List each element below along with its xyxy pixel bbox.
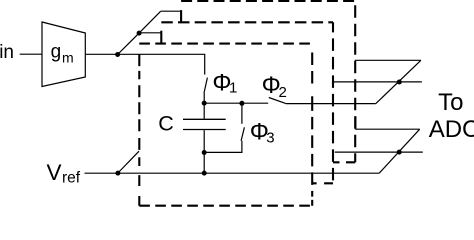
svg-text:C: C xyxy=(158,111,174,135)
label Vref xyxy=(47,160,81,187)
label gm xyxy=(51,42,74,66)
node output mux top junction xyxy=(397,80,402,85)
wire stage 2 reference output xyxy=(335,151,423,153)
node output mux bottom junction xyxy=(397,150,402,155)
node stage 3 input terminal xyxy=(180,10,182,23)
wire Vref fan diagonal xyxy=(118,151,139,173)
sample-and-hold stage 2 (middle dashed box) xyxy=(161,22,333,183)
label phi1 xyxy=(212,70,237,97)
wire top plate stem xyxy=(203,103,205,119)
wire top plate to switch phi2 xyxy=(204,102,268,104)
svg-text:To: To xyxy=(438,89,463,116)
wire phi2 output xyxy=(286,103,376,105)
wire to stage 2 input xyxy=(139,32,161,34)
label To ADC xyxy=(429,89,474,143)
wire input fan diagonal xyxy=(118,11,161,54)
node bottom plate junction xyxy=(202,150,207,155)
svg-text:ADC: ADC xyxy=(429,116,474,143)
svg-text:g: g xyxy=(51,42,62,63)
wire stage 3 reference output xyxy=(356,116,420,129)
wire Vref rail xyxy=(85,172,380,174)
capacitor C xyxy=(183,119,226,129)
wire bottom plate stem xyxy=(203,130,205,173)
wire input to gm xyxy=(20,53,42,55)
label phi3 xyxy=(250,119,275,147)
node stage 2 input terminal xyxy=(160,31,162,43)
wire to stage 3 input xyxy=(161,10,182,12)
svg-text:1: 1 xyxy=(229,79,237,96)
switch phi3 xyxy=(204,103,244,152)
sample-and-hold stage 3 (back dashed box) xyxy=(181,1,355,162)
node bottom plate to Vref junction xyxy=(202,171,207,176)
wire gm output to switch phi1 xyxy=(85,54,204,74)
svg-text:m: m xyxy=(62,50,74,66)
node fan junction xyxy=(137,31,142,36)
transconductor gm xyxy=(42,22,85,87)
sample-and-hold stage 1 (front dashed box) xyxy=(139,44,312,206)
svg-text:2: 2 xyxy=(279,84,287,101)
node top plate junction xyxy=(202,101,207,106)
svg-text:3: 3 xyxy=(266,130,274,147)
wire stage 3 output xyxy=(355,59,421,61)
node gm output junction xyxy=(115,52,120,57)
node phi3 branch junction xyxy=(239,101,244,106)
label phi2 xyxy=(262,72,287,101)
switch output mux top arm xyxy=(376,60,421,103)
switch phi2 xyxy=(269,98,286,104)
svg-text:in: in xyxy=(0,42,14,63)
node Vref fan junction xyxy=(115,171,120,176)
switch phi1 xyxy=(204,78,207,104)
switch output mux bottom arm xyxy=(379,129,420,173)
svg-text:ref: ref xyxy=(62,170,81,187)
svg-text:V: V xyxy=(47,160,62,185)
wire stage 2 output xyxy=(334,81,422,83)
